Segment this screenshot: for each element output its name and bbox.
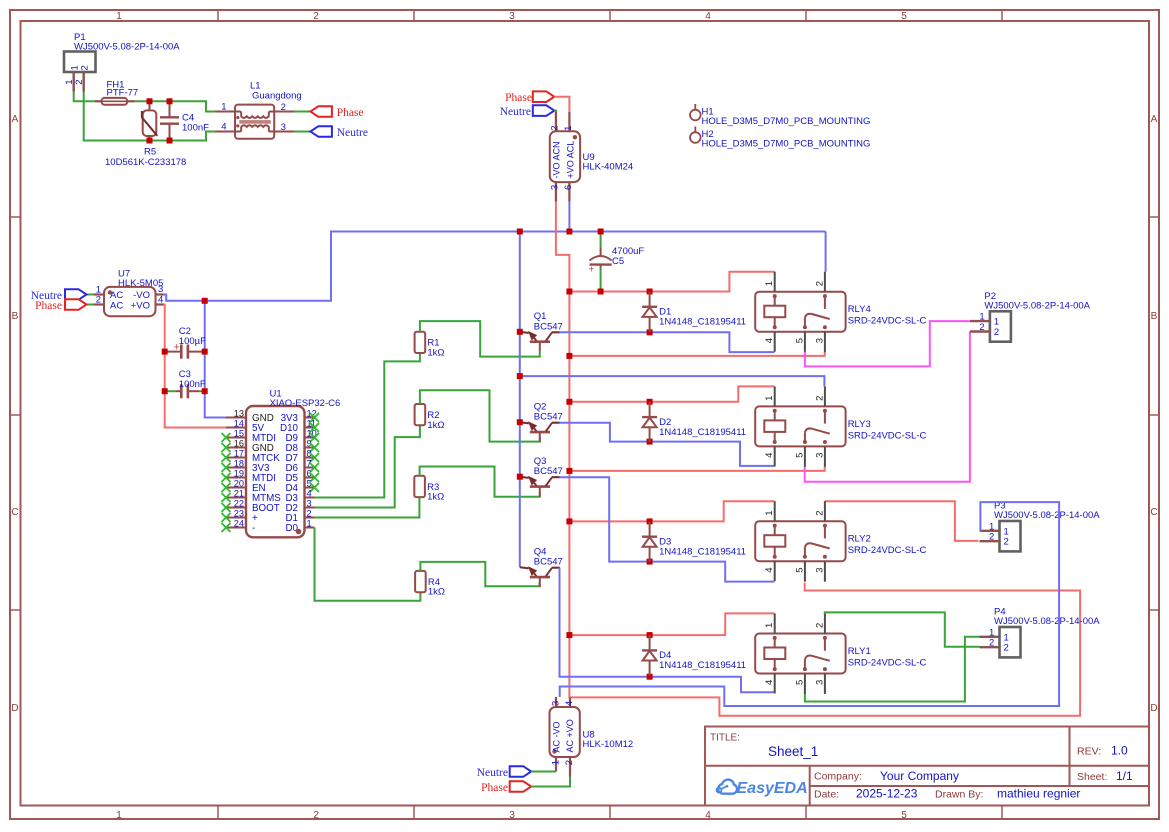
svg-text:1: 1 [1004,632,1009,643]
svg-text:WJ500V-5.08-2P-14-00A: WJ500V-5.08-2P-14-00A [994,616,1100,627]
svg-text:2: 2 [814,510,825,515]
svg-text:REV:: REV: [1077,746,1101,758]
svg-text:HOLE_D3M5_D7M0_PCB_MOUNTING: HOLE_D3M5_D7M0_PCB_MOUNTING [702,139,871,150]
svg-text:SRD-24VDC-SL-C: SRD-24VDC-SL-C [848,316,927,327]
svg-text:1: 1 [764,396,775,401]
svg-text:6: 6 [563,185,574,190]
svg-text:3: 3 [550,185,561,190]
svg-text:SRD-24VDC-SL-C: SRD-24VDC-SL-C [848,658,927,669]
svg-text:HLK-5M05: HLK-5M05 [118,278,163,289]
svg-text:1: 1 [764,623,775,628]
svg-text:WJ500V-5.08-2P-14-00A: WJ500V-5.08-2P-14-00A [984,300,1090,311]
svg-text:5: 5 [794,680,805,685]
svg-text:BC547: BC547 [534,557,563,568]
svg-text:5: 5 [794,453,805,458]
svg-text:-: - [252,523,255,534]
svg-text:RLY3: RLY3 [848,419,871,430]
svg-text:2: 2 [564,760,575,765]
svg-text:Company:: Company: [814,771,862,783]
svg-text:Sheet:: Sheet: [1077,771,1107,783]
svg-text:1/1: 1/1 [1116,769,1133,783]
svg-text:1: 1 [989,627,994,638]
svg-text:16: 16 [234,439,244,449]
svg-text:Phase: Phase [35,300,62,312]
svg-text:D: D [1150,703,1157,714]
svg-text:1kΩ: 1kΩ [427,420,444,431]
svg-text:1N4148_C18195411: 1N4148_C18195411 [659,546,746,557]
svg-text:1kΩ: 1kΩ [428,587,445,598]
svg-text:EasyEDA: EasyEDA [737,780,808,797]
svg-text:2: 2 [80,65,91,70]
svg-text:23: 23 [234,509,244,519]
svg-text:TITLE:: TITLE: [710,732,740,743]
svg-text:-VO ACN: -VO ACN [552,141,562,178]
svg-text:Neutre: Neutre [337,127,368,139]
svg-text:100µF: 100µF [179,336,206,347]
svg-text:5: 5 [794,567,805,572]
svg-text:Guangdong: Guangdong [252,90,302,101]
svg-text:1kΩ: 1kΩ [427,492,444,503]
svg-text:100nF: 100nF [182,123,209,134]
svg-text:3: 3 [814,680,825,685]
svg-text:XIAO-ESP32-C6: XIAO-ESP32-C6 [270,398,341,409]
svg-text:18: 18 [234,459,244,469]
svg-text:3: 3 [814,453,825,458]
svg-text:21: 21 [234,489,244,499]
svg-text:BC547: BC547 [534,466,563,477]
svg-text:WJ500V-5.08-2P-14-00A: WJ500V-5.08-2P-14-00A [994,510,1100,521]
svg-text:B: B [12,311,19,322]
svg-text:4: 4 [764,567,775,572]
svg-text:1: 1 [994,317,999,328]
svg-text:R5: R5 [144,147,156,158]
svg-text:24: 24 [234,519,244,529]
svg-text:1: 1 [551,760,562,765]
svg-text:Drawn By:: Drawn By: [935,788,983,800]
svg-text:1: 1 [989,521,994,532]
svg-text:1: 1 [1004,526,1009,537]
svg-text:1: 1 [563,126,574,131]
svg-text:WJ500V-5.08-2P-14-00A: WJ500V-5.08-2P-14-00A [74,42,180,53]
svg-text:BC547: BC547 [534,412,563,423]
svg-text:3: 3 [509,810,515,821]
svg-text:1: 1 [221,102,226,113]
svg-text:5: 5 [794,338,805,343]
svg-text:4: 4 [764,680,775,685]
svg-text:C5: C5 [612,256,624,267]
svg-text:HLK-10M12: HLK-10M12 [583,739,634,750]
svg-text:3: 3 [509,11,515,22]
svg-text:4: 4 [221,122,226,133]
svg-text:19: 19 [234,469,244,479]
svg-text:15: 15 [234,429,244,439]
svg-text:14: 14 [234,419,244,429]
svg-text:4: 4 [705,11,711,22]
svg-text:4: 4 [764,338,775,343]
svg-text:2: 2 [814,623,825,628]
svg-text:SRD-24VDC-SL-C: SRD-24VDC-SL-C [848,430,927,441]
svg-text:5: 5 [901,11,907,22]
svg-text:1: 1 [979,312,984,323]
svg-text:1N4148_C18195411: 1N4148_C18195411 [659,427,746,438]
svg-text:1: 1 [764,281,775,286]
svg-text:2: 2 [74,79,85,84]
svg-text:2: 2 [814,281,825,286]
svg-text:RLY2: RLY2 [848,534,871,545]
svg-text:2: 2 [994,327,999,338]
svg-text:4: 4 [307,489,312,499]
svg-text:C: C [1150,507,1157,518]
svg-text:1: 1 [307,519,312,529]
svg-text:Neutre: Neutre [500,106,531,118]
svg-text:2: 2 [313,810,319,821]
svg-text:1N4148_C18195411: 1N4148_C18195411 [659,660,746,671]
svg-text:+VO: +VO [131,300,150,311]
svg-text:1: 1 [116,810,122,821]
svg-text:1kΩ: 1kΩ [427,348,444,359]
svg-text:2: 2 [307,509,312,519]
svg-text:5: 5 [901,810,907,821]
svg-text:2: 2 [313,11,319,22]
svg-text:2: 2 [989,532,994,543]
svg-text:1: 1 [764,510,775,515]
svg-text:A: A [1151,114,1158,125]
svg-text:10D561K-C233178: 10D561K-C233178 [105,157,186,168]
svg-text:1N4148_C18195411: 1N4148_C18195411 [659,317,746,328]
svg-text:2: 2 [814,396,825,401]
svg-text:B: B [1151,311,1158,322]
svg-text:4: 4 [764,453,775,458]
svg-text:2: 2 [1004,537,1009,548]
svg-text:PTF-77: PTF-77 [107,88,139,99]
svg-text:Date:: Date: [814,788,839,800]
svg-text:3: 3 [551,701,562,706]
svg-text:C: C [11,507,18,518]
svg-text:2: 2 [550,126,561,131]
svg-text:4: 4 [564,701,575,706]
svg-text:AC +VO: AC +VO [565,719,575,752]
svg-text:2: 2 [989,638,994,649]
svg-text:17: 17 [234,449,244,459]
svg-text:RLY1: RLY1 [848,646,871,657]
svg-text:3: 3 [814,338,825,343]
svg-text:HLK-40M24: HLK-40M24 [583,162,634,173]
svg-text:20: 20 [234,479,244,489]
svg-text:A: A [12,114,19,125]
svg-text:mathieu regnier: mathieu regnier [997,787,1080,801]
svg-text:22: 22 [234,499,244,509]
svg-text:1.0: 1.0 [1111,744,1128,758]
svg-text:Phase: Phase [505,92,532,104]
svg-text:2: 2 [979,322,984,333]
svg-text:D: D [11,703,18,714]
svg-text:3: 3 [307,499,312,509]
svg-text:Phase: Phase [337,107,364,119]
svg-text:Sheet_1: Sheet_1 [768,744,818,759]
svg-text:Neutre: Neutre [477,767,508,779]
svg-text:Your Company: Your Company [880,769,959,783]
svg-text:HOLE_D3M5_D7M0_PCB_MOUNTING: HOLE_D3M5_D7M0_PCB_MOUNTING [702,116,871,127]
svg-text:RLY4: RLY4 [848,304,871,315]
svg-text:3: 3 [814,567,825,572]
svg-text:BC547: BC547 [534,321,563,332]
svg-text:Phase: Phase [481,782,508,794]
svg-text:1: 1 [116,11,122,22]
svg-text:SRD-24VDC-SL-C: SRD-24VDC-SL-C [848,545,927,556]
svg-text:13: 13 [234,409,244,419]
svg-text:+VO ACL: +VO ACL [566,141,576,179]
svg-text:AC -VO: AC -VO [552,721,562,752]
svg-text:2025-12-23: 2025-12-23 [856,787,918,801]
svg-text:4: 4 [705,810,711,821]
svg-text:2: 2 [281,102,286,113]
svg-text:AC: AC [110,300,123,311]
svg-text:2: 2 [1004,643,1009,654]
svg-text:3: 3 [281,122,286,133]
svg-text:+: + [589,265,595,276]
